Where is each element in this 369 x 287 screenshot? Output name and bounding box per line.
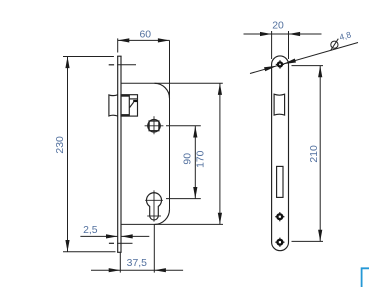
dim 90 extension top	[166, 125, 201, 127]
svg-text:90: 90	[182, 153, 193, 165]
dim 90 line	[194, 126, 196, 199]
latch body thick bottom	[121, 114, 129, 116]
arrow 20 right	[289, 32, 301, 36]
cylinder bottom cross tick	[147, 215, 161, 217]
follower crosshair horizontal	[145, 125, 164, 127]
bottom screw hole right view	[275, 238, 284, 247]
lock case right edge + 60 extension	[169, 40, 171, 209]
latch bolt protruding head	[109, 95, 118, 116]
phi symbol	[331, 39, 339, 51]
dim 37,5 right extension	[153, 225, 155, 273]
middle screw hole right view	[275, 212, 284, 221]
faceplate side view left edge	[117, 56, 119, 252]
svg-text:37,5: 37,5	[127, 258, 147, 269]
lock case bottom-right corner arc	[155, 209, 170, 224]
dim 230 extension bottom	[63, 251, 116, 253]
dim 90 extension bottom	[166, 198, 201, 200]
dim 210 extension bottom	[292, 240, 324, 242]
arrow 37,5 left	[109, 268, 121, 272]
svg-text:230: 230	[55, 136, 66, 154]
svg-text:4,8: 4,8	[338, 29, 352, 42]
euro cylinder hole	[147, 193, 162, 220]
faceplate top cap	[117, 55, 122, 57]
svg-text:210: 210	[309, 145, 320, 163]
arrow 230 bottom	[65, 240, 69, 252]
dim 210 extension top	[292, 65, 324, 67]
svg-text:60: 60	[140, 30, 152, 41]
top screw centerline right	[117, 64, 136, 66]
latch divider	[128, 95, 130, 116]
svg-text:20: 20	[272, 20, 284, 31]
svg-text:170: 170	[196, 150, 207, 168]
faceplate side view right edge	[120, 56, 122, 252]
arrow 170 bottom	[218, 213, 222, 225]
dim 20 left extension	[271, 31, 273, 59]
arrow 2,5 left	[106, 234, 118, 238]
top screw hole right view	[276, 60, 284, 68]
arrow 90 bottom	[193, 187, 197, 199]
dim 210 line	[319, 66, 321, 242]
top screw centerline dash left	[109, 64, 114, 66]
arrow leader left	[264, 66, 277, 72]
dim 230 line	[67, 57, 69, 252]
right view plate stadium outline	[272, 56, 289, 251]
bottom screw centerline right	[117, 242, 132, 244]
dim 230 extension top	[63, 56, 114, 58]
latch body thick top	[121, 95, 129, 97]
arrow 230 top	[65, 57, 69, 69]
lock case top-right corner arc	[155, 83, 170, 98]
dim 20 line	[244, 33, 322, 35]
faceplate bottom cap	[117, 251, 122, 253]
dim 2,5 line right	[121, 235, 149, 237]
dim 170 line	[219, 83, 221, 224]
dim 2,5 line left	[80, 235, 117, 237]
arrow 210 bottom	[318, 230, 322, 242]
latch small block	[133, 100, 137, 102]
arrow 210 top	[318, 66, 322, 78]
arrow 20 left	[260, 32, 272, 36]
follower crosshair vertical	[153, 116, 155, 134]
arrow 60 left	[118, 38, 130, 42]
right view latch cutout	[274, 94, 285, 115]
right view lower slot	[277, 166, 283, 197]
arrow 2,5 right	[121, 234, 133, 238]
arrow 170 top	[218, 83, 222, 95]
arrow leader right	[283, 59, 296, 65]
dim 37,5 line	[91, 269, 183, 271]
latch diagonal spring	[130, 102, 134, 108]
dim 37,5 left extension	[119, 253, 121, 273]
dim 60 left extension	[117, 38, 119, 52]
latch inner horizontal	[129, 98, 137, 100]
follower circle	[148, 120, 161, 133]
arrow 60 right	[158, 38, 170, 42]
follower square hole	[149, 121, 159, 131]
latch bolt body outline	[121, 95, 138, 116]
lock case bottom edge + 170 extension	[121, 223, 223, 225]
arrow 90 top	[193, 126, 197, 138]
cylinder centerline horizontal	[145, 199, 163, 201]
arrow 37,5 right	[154, 268, 166, 272]
dim 20 right extension	[288, 31, 290, 59]
leader line phi 4.8	[250, 43, 358, 74]
lock case top edge + 170 extension	[121, 82, 223, 84]
cylinder centerline vertical	[153, 190, 155, 221]
dim 60 line	[118, 39, 170, 41]
svg-text:2,5: 2,5	[83, 225, 98, 236]
bottom screw centerline dash left	[109, 242, 114, 244]
blue selection corner	[362, 268, 369, 287]
